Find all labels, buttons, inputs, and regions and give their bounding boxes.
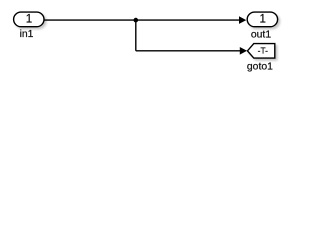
svg-text:1: 1 bbox=[26, 12, 32, 25]
svg-text:in1: in1 bbox=[20, 29, 34, 40]
shadow of inport block in1 bbox=[16, 14, 46, 29]
arrowhead into out1 bbox=[239, 17, 245, 24]
svg-text:-T-: -T- bbox=[258, 45, 268, 55]
arrowhead into goto1 bbox=[240, 48, 246, 55]
svg-text:1: 1 bbox=[259, 12, 265, 25]
svg-text:out1: out1 bbox=[251, 29, 271, 40]
wire from in1 to out1 bbox=[44, 19, 239, 21]
wire branch down from junction bbox=[135, 20, 137, 51]
inport block in1 (oval with "1") bbox=[14, 12, 44, 27]
junction node bbox=[134, 18, 139, 23]
shadow of outport block out1 bbox=[249, 14, 279, 29]
shadow of goto block goto1 bbox=[249, 46, 276, 61]
svg-text:goto1: goto1 bbox=[247, 61, 273, 72]
goto block goto1 (tag with "-T-") bbox=[247, 44, 274, 59]
outport block out1 (oval with "1") bbox=[247, 12, 277, 27]
wire from branch to goto1 bbox=[136, 50, 241, 52]
